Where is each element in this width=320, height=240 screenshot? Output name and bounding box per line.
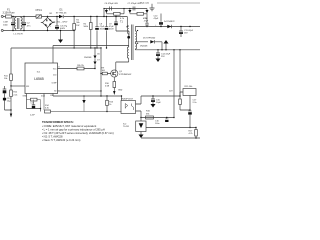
capacitor C17 xyxy=(188,110,192,112)
transformer core xyxy=(132,25,133,61)
svg-text:450V: 450V xyxy=(100,28,105,30)
wire COMP xyxy=(53,95,122,97)
svg-text:25V: 25V xyxy=(161,56,165,58)
resistor R17 xyxy=(195,130,198,137)
resistor R8 xyxy=(77,67,84,70)
svg-text:2.2nF: 2.2nF xyxy=(30,115,36,117)
svg-text:D7: D7 xyxy=(97,60,99,62)
IC bottom pins xyxy=(27,94,54,98)
gate resistor R9 xyxy=(102,72,107,75)
secondary winding N2b xyxy=(135,44,136,49)
primary winding N1a xyxy=(126,17,128,27)
diode D8 xyxy=(94,62,97,65)
diode D3 xyxy=(128,10,131,13)
svg-text:C1M: C1M xyxy=(3,22,8,24)
svg-text:TL431: TL431 xyxy=(123,126,130,128)
capacitor C9b xyxy=(145,23,148,25)
wire bottom AC rail xyxy=(3,30,74,32)
wire TL431 cathode row xyxy=(141,117,174,119)
svg-text:STTH1L06: STTH1L06 xyxy=(56,12,67,14)
capacitor C16 xyxy=(165,118,168,120)
capacitor C7 xyxy=(133,7,135,11)
capacitor C10 xyxy=(159,20,163,27)
common-mode choke L1 xyxy=(14,18,15,30)
svg-text:STP4NK50Z: STP4NK50Z xyxy=(119,74,132,76)
bottom rail xyxy=(141,137,200,139)
resistor R18 xyxy=(179,99,182,105)
svg-text:1k: 1k xyxy=(109,104,111,106)
svg-text:C11 47μF: C11 47μF xyxy=(184,30,194,32)
svg-text:R8 47k: R8 47k xyxy=(77,65,85,67)
resistor R12 xyxy=(10,90,13,97)
op-amp IC1 box L6565 xyxy=(25,63,58,94)
resistor R15 xyxy=(183,89,196,96)
svg-text:High side: High side xyxy=(140,3,150,5)
svg-text:12V: 12V xyxy=(169,91,173,93)
svg-text:NTC1: NTC1 xyxy=(36,9,43,12)
output rail 12V top xyxy=(161,26,200,28)
svg-text:3.3k: 3.3k xyxy=(45,108,49,110)
capacitor C3 xyxy=(55,17,59,31)
opto wires xyxy=(121,96,123,101)
capacitor C9 xyxy=(105,17,109,49)
wire startup band xyxy=(11,47,101,49)
bridge rectifier B1 xyxy=(43,18,53,28)
terminal AC-N xyxy=(1,30,3,32)
wire TL431 right row xyxy=(146,127,196,129)
svg-text:R15 10k: R15 10k xyxy=(185,86,194,88)
svg-text:VFF: VFF xyxy=(26,86,29,88)
resistor R5 xyxy=(114,12,121,15)
junction dots input xyxy=(12,16,13,17)
svg-text:ZCD: ZCD xyxy=(41,95,46,97)
resistor R16 xyxy=(146,116,154,119)
svg-text:▪ Naux: 5 T, AWG32 (⌀ 0.24 mm): ▪ Naux: 5 T, AWG32 (⌀ 0.24 mm) xyxy=(42,138,80,142)
capacitor C1 xyxy=(11,17,15,31)
snubber wire xyxy=(104,9,147,17)
resistor R1 xyxy=(73,24,76,31)
wire IC pin left xyxy=(11,85,25,87)
ground top right xyxy=(150,4,155,11)
capacitor C12 xyxy=(3,86,11,110)
svg-text:C13: C13 xyxy=(31,102,34,104)
thermistor NTC1 xyxy=(36,15,42,18)
feedback risers xyxy=(174,50,190,118)
capacitor C11 xyxy=(179,27,183,38)
svg-text:100n: 100n xyxy=(155,123,159,125)
svg-text:C14 47μF: C14 47μF xyxy=(161,54,171,56)
svg-text:D6: D6 xyxy=(97,54,99,56)
svg-text:GND: GND xyxy=(118,90,123,92)
capacitor C8 xyxy=(95,17,99,49)
wire left riser xyxy=(10,48,12,86)
terminal AC-L xyxy=(1,16,3,18)
fuse F1 xyxy=(6,15,12,18)
svg-text:D5 STPS340: D5 STPS340 xyxy=(143,38,156,40)
resistor R7 xyxy=(31,98,38,101)
IC right pin wire GD xyxy=(58,90,102,92)
svg-text:▪ N2: 5 T, AWG28: ▪ N2: 5 T, AWG28 xyxy=(42,134,63,138)
svg-text:1W: 1W xyxy=(76,25,79,27)
svg-text:C6 470pF 40V: C6 470pF 40V xyxy=(105,3,119,5)
primary winding N1b xyxy=(128,39,130,47)
capacitor C14 xyxy=(156,50,160,59)
svg-text:COMP: COMP xyxy=(51,82,57,84)
svg-text:47μF: 47μF xyxy=(154,18,160,20)
TL431 IC2 xyxy=(136,121,146,132)
svg-text:Vdc 200…375V: Vdc 200…375V xyxy=(52,21,68,23)
svg-text:▪ L = 1 mm air gap for a prima: ▪ L = 1 mm air gap for a primary inducta… xyxy=(42,127,105,131)
svg-text:L6565: L6565 xyxy=(34,77,44,81)
svg-text:▪ CORE: E25/13x7, N67 material: ▪ CORE: E25/13x7, N67 material or equiva… xyxy=(42,124,96,128)
diode D5 secondary xyxy=(150,40,154,43)
svg-text:D4 1N5822: D4 1N5822 xyxy=(164,21,175,23)
optocoupler OC1 xyxy=(121,101,136,114)
diode D2b xyxy=(146,10,149,13)
svg-text:L1 27mH: L1 27mH xyxy=(14,34,23,36)
diode D1 xyxy=(59,15,63,18)
svg-text:4N35/PC817: 4N35/PC817 xyxy=(121,98,134,100)
wire aux band xyxy=(53,46,129,64)
svg-text:1N4148: 1N4148 xyxy=(140,46,148,48)
svg-text:▪ N1: 48 T (24T+24T series con: ▪ N1: 48 T (24T+24T series connected), 2… xyxy=(42,131,114,135)
wire ZCD low xyxy=(44,97,122,112)
svg-text:100n: 100n xyxy=(3,24,9,26)
secondary winding N2a xyxy=(135,31,136,42)
transformer specs text xyxy=(42,120,114,142)
svg-text:8: 8 xyxy=(59,66,60,68)
resistor R13 xyxy=(106,100,109,105)
diode ZCD xyxy=(82,100,85,104)
wire C10 top xyxy=(160,14,162,20)
svg-text:3.15A Fuse: 3.15A Fuse xyxy=(2,11,15,14)
output bar 12V high side xyxy=(157,2,200,4)
svg-text:C3 47μ: C3 47μ xyxy=(60,25,68,27)
diode D4 xyxy=(167,25,171,28)
ground TL431 xyxy=(139,135,144,139)
wire top AC rail xyxy=(3,16,47,18)
under-IC bracket xyxy=(27,97,41,112)
svg-text:16V: 16V xyxy=(184,33,188,35)
IC right pin wire VCC xyxy=(58,68,96,70)
diode D2 xyxy=(105,10,108,13)
svg-text:450V: 450V xyxy=(109,28,114,30)
ground input xyxy=(60,31,62,40)
source wire + sense resistor R10 xyxy=(113,77,115,81)
capacitor C15 xyxy=(151,96,155,104)
diode D7 xyxy=(94,56,97,59)
capacitor C6 xyxy=(110,7,112,11)
arrow to ground xyxy=(10,114,12,118)
resistor R11 xyxy=(10,74,13,81)
svg-text:10μF: 10μF xyxy=(156,102,162,104)
capacitor C2 xyxy=(22,17,26,31)
IC pin names xyxy=(26,66,60,92)
drain wire xyxy=(115,62,117,70)
resistor R2 xyxy=(90,23,93,30)
capacitor C13 xyxy=(32,104,35,106)
ground sec top xyxy=(165,44,167,50)
svg-text:1N4148: 1N4148 xyxy=(84,57,92,59)
wire HV rail xyxy=(48,16,128,18)
node clamp/drain blob xyxy=(127,36,130,39)
resistor R14 xyxy=(45,110,51,113)
ground arrow source xyxy=(113,91,115,95)
resistor R6 xyxy=(137,12,144,15)
clamp capacitor C5 xyxy=(114,17,129,36)
svg-text:TRANSFORMER SPECS:: TRANSFORMER SPECS: xyxy=(42,120,74,124)
transistor Q1 xyxy=(111,70,118,77)
